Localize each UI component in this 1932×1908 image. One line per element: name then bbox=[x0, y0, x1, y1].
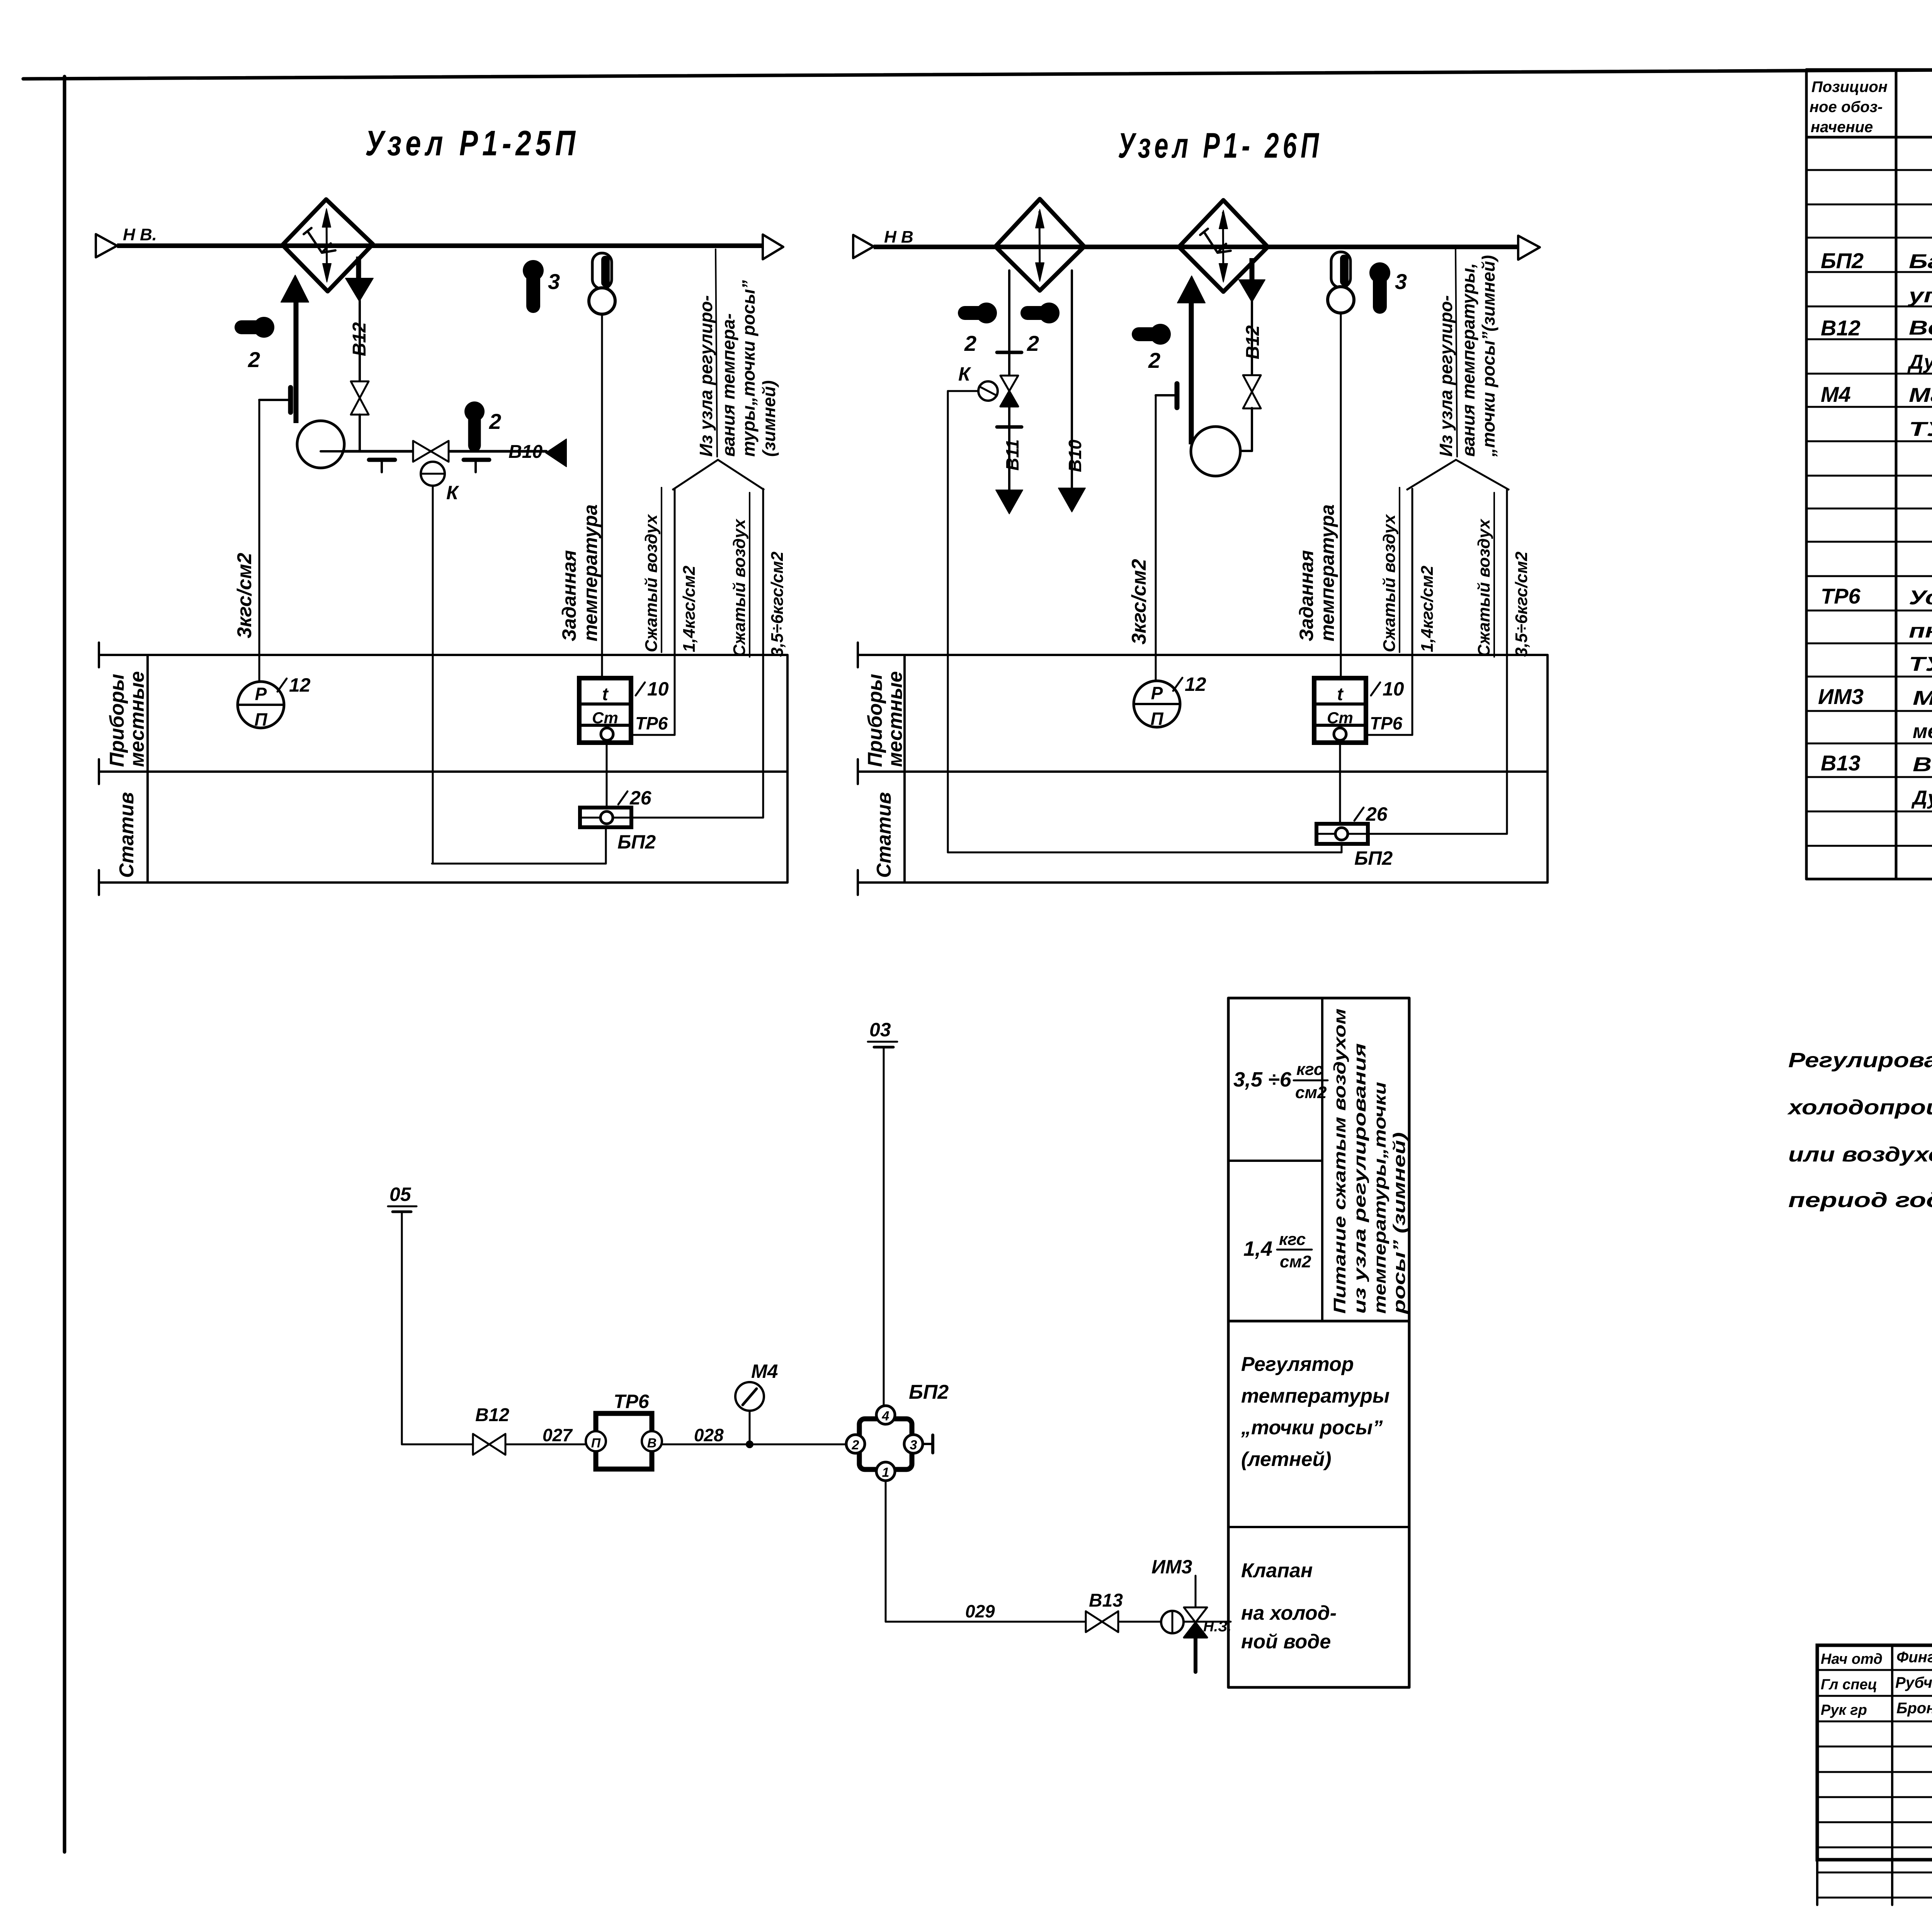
band frame unit1 (Приборы местные / Статив) bbox=[99, 643, 787, 895]
wire: В10 drop from diamond1 unit2 bbox=[1071, 270, 1073, 488]
svg-text:Сжатый воздух: Сжатый воздух bbox=[1380, 514, 1399, 652]
svg-text:температуры„точки: температуры„точки bbox=[1371, 1082, 1389, 1314]
svg-text:см2: см2 bbox=[1295, 1083, 1327, 1102]
svg-text:3,5 ÷6: 3,5 ÷6 bbox=[1233, 1068, 1292, 1091]
label В10 unit2 bbox=[1065, 439, 1085, 472]
svg-text:029: 029 bbox=[965, 1601, 995, 1621]
svg-text:Приборы: Приборы bbox=[106, 674, 128, 767]
svg-text:12: 12 bbox=[289, 674, 311, 696]
svg-text:2: 2 bbox=[489, 409, 501, 434]
svg-text:Р: Р bbox=[255, 684, 267, 704]
svg-text:В13: В13 bbox=[1089, 1590, 1123, 1611]
table header texts bbox=[1810, 78, 1932, 136]
svg-text:ТР6: ТР6 bbox=[1821, 584, 1861, 608]
wire: compressed air 1,4 to ТР6 unit2 bbox=[1366, 489, 1412, 735]
sheet frame top border bbox=[23, 66, 1932, 79]
three-way valve К unit1 bbox=[413, 441, 459, 503]
svg-text:ТР6: ТР6 bbox=[1370, 713, 1403, 733]
wire: to pressure instrument 12 unit2 bbox=[1155, 395, 1157, 681]
svg-text:Бронштейн: Бронштейн bbox=[1896, 1700, 1932, 1717]
label Клапан на холодной воде bbox=[1241, 1559, 1337, 1653]
svg-text:период года.: период года. bbox=[1788, 1189, 1932, 1212]
svg-text:3: 3 bbox=[910, 1438, 917, 1452]
unit1 air duct outlet arrow bbox=[763, 235, 783, 259]
svg-text:Нач отд: Нач отд bbox=[1821, 1651, 1883, 1667]
svg-text:В: В bbox=[647, 1436, 657, 1451]
svg-text:2: 2 bbox=[1027, 331, 1039, 355]
wire: sensor to ТР6 (set temperature) bbox=[601, 314, 603, 678]
svg-text:2: 2 bbox=[248, 347, 260, 372]
wire: from node 05 bbox=[402, 1212, 473, 1444]
svg-text:Устройство терморегулирующее: Устройство терморегулирующее bbox=[1909, 587, 1932, 609]
svg-text:Позицион: Позицион bbox=[1811, 78, 1888, 95]
svg-text:3,5÷6кгс/см2: 3,5÷6кгс/см2 bbox=[768, 551, 787, 657]
bypass panel БП2 (bottom schematic) bbox=[846, 1381, 949, 1481]
label Приборы местные unit1 bbox=[106, 671, 148, 767]
drain tee 1 unit1 bbox=[369, 460, 395, 472]
svg-text:ТР6: ТР6 bbox=[614, 1391, 650, 1412]
wire: unit2 return drop with down arrow bbox=[1239, 258, 1265, 376]
svg-text:Мембранный исполнительный: Мембранный исполнительный bbox=[1913, 687, 1932, 709]
svg-text:027: 027 bbox=[543, 1425, 573, 1445]
wire: compressed air 3,5-6 to БП2 unit1 bbox=[631, 489, 763, 818]
svg-text:Ст: Ст bbox=[592, 709, 618, 727]
svg-text:Заданная: Заданная bbox=[1296, 550, 1317, 641]
bypass panel БП2 block 26 unit1 bbox=[580, 787, 656, 853]
wire 029 bbox=[886, 1481, 1231, 1622]
svg-text:ное обоз-: ное обоз- bbox=[1810, 99, 1883, 116]
svg-text:начение: начение bbox=[1811, 119, 1873, 136]
svg-text:26: 26 bbox=[1366, 803, 1388, 825]
label Регулятор температуры bbox=[1241, 1353, 1389, 1471]
svg-text:температуры: температуры bbox=[1241, 1385, 1389, 1407]
svg-text:ТУ25- 02. 1297- 74: ТУ25- 02. 1297- 74 bbox=[1909, 653, 1932, 675]
svg-text:кгс: кгс bbox=[1279, 1230, 1306, 1249]
svg-text:В10: В10 bbox=[509, 442, 543, 462]
bypass panel БП2 block 26 unit2 bbox=[1316, 803, 1393, 869]
svg-text:2: 2 bbox=[964, 331, 976, 355]
label Питание сжатым воздухом... bbox=[1330, 1008, 1409, 1314]
pressure gauge М4 bbox=[735, 1360, 778, 1448]
wire: unit2 supply riser with up arrow bbox=[1177, 276, 1205, 444]
wire: compressed air 3,5-6 to БП2 unit2 bbox=[1368, 489, 1507, 834]
svg-text:пневматическое ТУДП-М-1: пневматическое ТУДП-М-1 bbox=[1909, 620, 1932, 642]
svg-text:В12: В12 bbox=[1243, 325, 1263, 359]
svg-text:3кгс/см2: 3кгс/см2 bbox=[1128, 559, 1150, 645]
wire: ТР6 to БП2 panel unit1 bbox=[606, 743, 608, 808]
svg-text:ТУ25-02.72-75: ТУ25-02.72-75 bbox=[1909, 418, 1932, 440]
svg-text:БП2: БП2 bbox=[909, 1381, 949, 1403]
wire 027 bbox=[505, 1425, 586, 1445]
svg-text:управления БПДУ-А ТУ25-04 272: управления БПДУ-А ТУ25-04 2720-75 bbox=[1907, 284, 1932, 307]
label Сжатый воздух 1,4кгс/см2 unit1 bbox=[642, 488, 699, 652]
svg-text:Ду 4;: Ду 4; bbox=[1907, 351, 1932, 373]
svg-text:Рук гр: Рук гр bbox=[1821, 1702, 1867, 1718]
svg-text:Питание сжатым воздухом: Питание сжатым воздухом bbox=[1330, 1008, 1349, 1314]
svg-text:Сжатый воздух: Сжатый воздух bbox=[730, 519, 749, 657]
svg-text:К: К bbox=[446, 482, 459, 503]
svg-text:вания темпера-: вания темпера- bbox=[718, 313, 738, 457]
svg-text:05: 05 bbox=[389, 1184, 412, 1205]
svg-text:Из узла регулиро-: Из узла регулиро- bbox=[696, 295, 716, 457]
svg-text:(зимней): (зимней) bbox=[759, 380, 779, 457]
svg-text:Гл спец: Гл спец bbox=[1821, 1677, 1877, 1693]
svg-text:Приборы: Приборы bbox=[864, 674, 886, 767]
svg-text:Н В.: Н В. bbox=[123, 225, 157, 244]
svg-text:БП2: БП2 bbox=[1821, 248, 1864, 273]
valve В12 unit1 bbox=[351, 381, 369, 451]
wire: БП2 26 loop to valve К unit2 bbox=[948, 391, 1342, 852]
svg-text:В10: В10 bbox=[1065, 439, 1085, 472]
drain arrow В10 unit2 bbox=[1058, 488, 1085, 512]
node НВ left (unit2 air duct inlet arrow) bbox=[853, 228, 913, 258]
valve В13 bbox=[1086, 1590, 1123, 1632]
label Сжатый воздух 1,4кгс/см2 unit2 bbox=[1380, 488, 1437, 652]
wire: unit2 air duct bbox=[874, 245, 1518, 249]
svg-text:1: 1 bbox=[882, 1465, 889, 1480]
svg-text:В11: В11 bbox=[1002, 439, 1022, 471]
label 1,4 кгс/см2 bbox=[1243, 1230, 1312, 1271]
wire: to pressure instrument 12 (3 kgf line) bbox=[259, 400, 260, 682]
svg-text:П: П bbox=[1150, 709, 1163, 729]
thermometer 2 (unit1, on riser) bbox=[241, 317, 274, 372]
svg-text:(летней): (летней) bbox=[1241, 1448, 1332, 1471]
svg-text:БП2: БП2 bbox=[617, 831, 656, 853]
node 03 bbox=[868, 1019, 897, 1047]
svg-text:вания температуры,: вания температуры, bbox=[1458, 263, 1478, 457]
label Заданная температура unit1 bbox=[558, 504, 601, 641]
wire: ТР6 to БП2 panel unit2 bbox=[1339, 743, 1341, 824]
cap tee above valve К unit2 bbox=[997, 351, 1022, 354]
svg-text:028: 028 bbox=[694, 1425, 724, 1445]
svg-text:В12: В12 bbox=[475, 1405, 509, 1425]
label 3,5-6 кгс/см2 bbox=[1233, 1060, 1328, 1102]
svg-text:Статив: Статив bbox=[873, 792, 895, 878]
thermometer 3 unit1 bbox=[523, 260, 560, 306]
svg-text:ИМ3: ИМ3 bbox=[1818, 684, 1864, 709]
wire: unit1 return drop with down arrow bbox=[345, 257, 373, 383]
svg-text:Сжатый воздух: Сжатый воздух bbox=[1475, 519, 1493, 657]
wire: unit1 water line bbox=[343, 450, 546, 453]
svg-text:кгс: кгс bbox=[1296, 1060, 1323, 1079]
label Из узла регулирования... unit2 bbox=[1436, 249, 1498, 457]
component list table grid bbox=[1806, 70, 1932, 912]
svg-text:Из узла регулиро-: Из узла регулиро- bbox=[1436, 295, 1456, 457]
label 3кгс/см2 unit1 bbox=[233, 553, 256, 638]
svg-text:К: К bbox=[958, 363, 971, 385]
svg-text:росы” (зимней): росы” (зимней) bbox=[1390, 1132, 1409, 1314]
svg-text:механизм: механизм bbox=[1913, 720, 1932, 743]
svg-text:М4: М4 bbox=[1821, 382, 1851, 406]
svg-text:4: 4 bbox=[882, 1409, 889, 1423]
unit 2 title Узел Р1-26П bbox=[1118, 126, 1323, 165]
drain arrow B10 unit1 bbox=[546, 439, 566, 467]
dew point sensor (white thermometer) unit2 bbox=[1328, 252, 1354, 313]
svg-text:П: П bbox=[254, 709, 267, 730]
svg-text:3,5÷6кгс/см2: 3,5÷6кгс/см2 bbox=[1512, 551, 1531, 657]
node НВ left (unit1 air duct inlet arrow) bbox=[96, 225, 157, 257]
title block texts bbox=[1821, 1649, 1932, 1722]
drain arrow В11 unit2 bbox=[996, 490, 1023, 514]
label B12 unit1 bbox=[349, 322, 370, 356]
label Статив unit1 bbox=[116, 792, 138, 878]
svg-text:ИМ3: ИМ3 bbox=[1151, 1556, 1192, 1578]
spray chamber (diamond) unit1 bbox=[282, 199, 373, 291]
svg-text:Н В: Н В bbox=[884, 228, 913, 247]
thermometer 2 (unit2 left) bbox=[964, 303, 997, 355]
svg-text:местные: местные bbox=[884, 671, 906, 767]
pump circle unit2 bbox=[1191, 427, 1240, 476]
svg-text:температура: температура bbox=[580, 504, 601, 641]
sheet frame left border bbox=[63, 77, 66, 1852]
svg-text:Р: Р bbox=[1151, 683, 1163, 703]
bracket split unit2 bbox=[1406, 460, 1509, 490]
three-way valve К unit2 bbox=[958, 363, 1018, 406]
svg-text:ной воде: ной воде bbox=[1241, 1631, 1331, 1653]
svg-text:3: 3 bbox=[1395, 269, 1407, 294]
unit 1 title Узел Р1-25П bbox=[365, 124, 580, 163]
svg-text:П: П bbox=[591, 1436, 601, 1451]
svg-text:В12: В12 bbox=[1821, 316, 1861, 340]
title block bbox=[1817, 1645, 1932, 1905]
tap cap on unit1 riser bbox=[259, 388, 291, 412]
svg-text:Заданная: Заданная bbox=[558, 550, 580, 641]
svg-text:БП2: БП2 bbox=[1354, 847, 1393, 869]
thermoregulator ТР6 instrument 10 unit2 bbox=[1314, 678, 1404, 743]
svg-text:или воздухоохладителя ( уз: или воздухоохладителя ( узел Р1- 26П ) в… bbox=[1788, 1143, 1932, 1166]
svg-text:Сжатый воздух: Сжатый воздух bbox=[642, 514, 661, 652]
svg-text:3кгс/см2: 3кгс/см2 bbox=[233, 553, 256, 638]
svg-text:Фингер: Фингер bbox=[1896, 1649, 1932, 1666]
wire: compressed air 1,4 to ТР6 unit1 bbox=[631, 489, 675, 735]
svg-text:см2: см2 bbox=[1280, 1252, 1311, 1271]
air cooler (diamond 2) unit2 bbox=[1179, 200, 1268, 292]
label В12 unit2 bbox=[1243, 325, 1263, 359]
label Заданная температура unit2 bbox=[1296, 504, 1338, 641]
svg-text:В12: В12 bbox=[349, 322, 370, 356]
unit2 air duct outlet arrow bbox=[1518, 236, 1540, 260]
svg-text:Узел Р1- 26П: Узел Р1- 26П bbox=[1118, 126, 1323, 165]
svg-text:Ст: Ст bbox=[1327, 709, 1353, 727]
thermometer 2 (unit1, water line) bbox=[464, 401, 501, 446]
wire: unit1 air duct bbox=[117, 243, 763, 248]
svg-text:Манометр МТ-2 . Шкала 0÷2,5: Манометр МТ-2 . Шкала 0÷2,5 bbox=[1909, 384, 1932, 406]
note paragraph Предусматривается bbox=[1787, 982, 1932, 1212]
svg-text:1,4кгс/см2: 1,4кгс/см2 bbox=[1418, 565, 1437, 652]
pump circle unit1 bbox=[297, 421, 344, 468]
pressure gauge П/Р instrument 12 unit2 bbox=[1134, 673, 1206, 729]
svg-text:Статив: Статив bbox=[116, 792, 138, 878]
thermoregulator ТР6 instrument 10 unit1 bbox=[579, 678, 669, 743]
table rows bbox=[1818, 177, 1932, 809]
svg-text:холодопроизводительности ка: холодопроизводительности камеры орошения… bbox=[1787, 1096, 1932, 1119]
svg-text:t: t bbox=[602, 684, 609, 704]
label Приборы местные unit2 bbox=[864, 671, 906, 767]
thermometer 3 unit2 bbox=[1369, 262, 1407, 307]
svg-text:Регулятор: Регулятор bbox=[1241, 1353, 1354, 1376]
svg-text:Клапан: Клапан bbox=[1241, 1559, 1313, 1582]
svg-text:„точки росы”(зимней): „точки росы”(зимней) bbox=[1478, 255, 1498, 457]
svg-text:Узел Р1-25П: Узел Р1-25П bbox=[365, 124, 580, 163]
svg-text:t: t bbox=[1337, 684, 1344, 704]
svg-text:1,4: 1,4 bbox=[1243, 1237, 1272, 1260]
svg-text:12: 12 bbox=[1185, 673, 1206, 695]
thermoregulator ТР6 (bottom schematic) bbox=[586, 1391, 662, 1469]
label B10 unit1 bbox=[509, 442, 543, 462]
thermometer 2 (unit2 mid) bbox=[1027, 303, 1060, 355]
svg-text:ТР6: ТР6 bbox=[635, 713, 668, 733]
svg-text:10: 10 bbox=[647, 678, 669, 700]
bracket split unit1 bbox=[672, 460, 764, 490]
label Статив unit2 bbox=[873, 792, 895, 878]
svg-text:Вентиль диафрагмовый ВПД-4: Вентиль диафрагмовый ВПД-4 bbox=[1909, 317, 1932, 339]
label Сжатый воздух 3,5-6кгс/см2 unit2 bbox=[1475, 493, 1531, 657]
valve В12 unit2 bbox=[1216, 375, 1261, 451]
svg-text:10: 10 bbox=[1383, 678, 1404, 700]
node 05 bbox=[388, 1184, 417, 1212]
svg-text:Байпасная панель дистанционног: Байпасная панель дистанционного bbox=[1909, 250, 1932, 273]
wire 028 bbox=[662, 1425, 846, 1445]
svg-text:Рубчинский: Рубчинский bbox=[1895, 1674, 1932, 1691]
svg-text:Регулирование температуры„то: Регулирование температуры„точки росы” из… bbox=[1788, 1049, 1932, 1072]
svg-text:из узла регулирования: из узла регулирования bbox=[1350, 1043, 1369, 1314]
cap tee below valve К unit2 bbox=[997, 425, 1022, 429]
wire: unit1 supply riser with up arrow bbox=[281, 275, 309, 423]
band frame unit2 (Приборы местные / Статив) bbox=[858, 643, 1548, 895]
wire: sensor to ТР6 unit2 bbox=[1340, 313, 1342, 678]
label 3кгс/см2 unit2 bbox=[1128, 559, 1150, 645]
svg-text:Вентиль диафрагмовый ВПД-4: Вентиль диафрагмовый ВПД-4 bbox=[1913, 753, 1932, 776]
pressure gauge П/Р instrument 12 unit1 bbox=[238, 674, 311, 730]
drain tee 2 unit1 bbox=[464, 460, 489, 472]
wire: В11 drop from diamond1 unit2 bbox=[1008, 270, 1010, 490]
svg-text:3: 3 bbox=[548, 269, 560, 294]
svg-text:М4: М4 bbox=[751, 1360, 778, 1382]
svg-text:2: 2 bbox=[852, 1438, 859, 1452]
svg-text:Ду 4;: Ду 4; bbox=[1911, 787, 1932, 809]
svg-text:на холод-: на холод- bbox=[1241, 1602, 1337, 1624]
wire: БП2 26 loop to valve К unit1 bbox=[432, 486, 606, 864]
thermometer 2 (unit2 riser) bbox=[1139, 324, 1171, 372]
svg-text:местные: местные bbox=[126, 671, 148, 767]
svg-text:03: 03 bbox=[869, 1019, 891, 1041]
svg-text:1,4кгс/см2: 1,4кгс/см2 bbox=[680, 565, 699, 652]
label Сжатый воздух 3,5-6кгс/см2 unit1 bbox=[730, 493, 787, 657]
label Из узла регулирования... unit1 bbox=[696, 249, 779, 457]
annotation table (bottom) bbox=[1228, 998, 1409, 1687]
wire: node 03 to БП2 port 4 bbox=[883, 1047, 885, 1406]
tap cap on unit2 riser bbox=[1156, 384, 1177, 408]
irrigation chamber (diamond 1) unit2 bbox=[995, 199, 1084, 291]
svg-text:2: 2 bbox=[1148, 348, 1160, 372]
dew point sensor (white thermometer) unit1 bbox=[589, 253, 615, 314]
svg-text:туры„точки росы”: туры„точки росы” bbox=[738, 280, 759, 457]
svg-text:температура: температура bbox=[1316, 504, 1338, 641]
valve В12 (bottom schematic) bbox=[473, 1405, 509, 1455]
svg-text:„точки росы”: „точки росы” bbox=[1241, 1417, 1383, 1439]
svg-text:В13: В13 bbox=[1821, 751, 1861, 775]
actuator ИМ3 with valve Н.З. bbox=[1151, 1556, 1231, 1672]
label В11 bbox=[1002, 439, 1022, 471]
svg-text:26: 26 bbox=[629, 787, 652, 809]
